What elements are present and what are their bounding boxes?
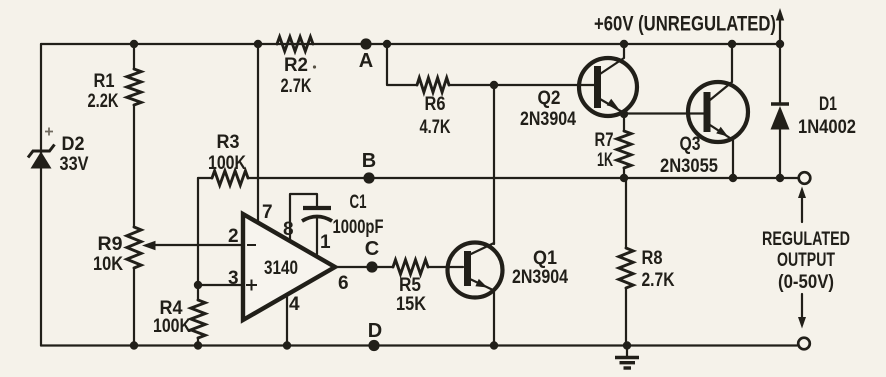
transistor Q2 2N3904: [579, 58, 637, 116]
wire junction down to Q1 collector: [493, 85, 495, 244]
svg-text:33V: 33V: [60, 154, 89, 175]
svg-text:R1: R1: [94, 71, 115, 92]
svg-text:3140: 3140: [264, 258, 298, 279]
wire left rail: [40, 44, 42, 346]
svg-text:R2: R2: [284, 55, 308, 76]
svg-text:Q2: Q2: [538, 88, 561, 109]
output terminal upper: [799, 172, 811, 184]
svg-text:100K: 100K: [153, 316, 191, 337]
node C: [366, 261, 377, 272]
svg-text:2.2K: 2.2K: [88, 91, 119, 112]
D2 plus mark: [45, 128, 53, 136]
ground symbol: [626, 346, 628, 357]
svg-text:8: 8: [283, 219, 294, 240]
svg-text:4.7K: 4.7K: [420, 117, 451, 138]
node A: [360, 38, 371, 49]
svg-text:1: 1: [320, 232, 331, 253]
wire node A drop to R6: [387, 44, 417, 85]
svg-text:1N4002: 1N4002: [798, 117, 856, 138]
wire pin 3: [198, 284, 243, 286]
resistor R5: [393, 260, 428, 274]
svg-text:100K: 100K: [208, 153, 246, 174]
wire node B rail to output terminal: [248, 177, 797, 179]
svg-text:1000pF: 1000pF: [333, 217, 384, 238]
wire pin 6 to R5: [335, 266, 393, 268]
capacitor C1: [303, 206, 331, 210]
wire pin 4 to bottom rail: [286, 294, 288, 346]
output arrow up: [801, 193, 803, 222]
wire C1 to pin 1: [316, 217, 318, 254]
zener diode D2 33V: [31, 152, 52, 169]
wire R3 left lead down: [197, 178, 199, 300]
wire pin 8 stub to C1: [290, 194, 317, 241]
wire Q2 emitter to Q3 base: [624, 112, 705, 114]
svg-text:2.7K: 2.7K: [281, 76, 312, 97]
svg-text:2N3904: 2N3904: [520, 109, 576, 130]
+60V supply arrow: [779, 17, 781, 44]
op-amp minus sign: [247, 244, 256, 246]
op-amp U1 3140 body: [243, 214, 335, 320]
svg-text:A: A: [359, 50, 373, 72]
R9 wiper arrow wire to pin 2: [151, 244, 243, 246]
svg-text:R3: R3: [217, 132, 240, 153]
wire bottom ground rail: [41, 344, 797, 346]
resistor R2: [277, 37, 313, 51]
resistor R1: [133, 44, 135, 69]
R2 print dot artifact: [313, 65, 316, 68]
wire op-amp pin 7 to top rail: [257, 44, 259, 223]
wire R4 to bottom rail: [197, 338, 199, 346]
svg-text:Q3: Q3: [680, 134, 701, 155]
resistor R8: [625, 178, 627, 248]
wire node B rail start: [198, 177, 212, 179]
svg-text:Q1: Q1: [533, 248, 557, 269]
resistor R4: [191, 300, 205, 338]
wire top rail: [41, 43, 780, 45]
svg-text:1K: 1K: [597, 150, 613, 171]
svg-text:2N3904: 2N3904: [512, 267, 568, 288]
svg-text:C: C: [365, 238, 379, 260]
junction dots: [130, 40, 138, 48]
transistor Q3 2N3055: [688, 82, 748, 142]
svg-text:+60V (UNREGULATED): +60V (UNREGULATED): [594, 13, 776, 36]
wire R9 to bottom rail: [133, 268, 135, 346]
svg-text:C1: C1: [350, 192, 367, 213]
svg-text:15K: 15K: [396, 294, 426, 315]
svg-text:B: B: [362, 150, 376, 172]
svg-text:OUTPUT: OUTPUT: [777, 250, 835, 271]
svg-text:3: 3: [228, 268, 239, 289]
svg-text:6: 6: [338, 273, 349, 294]
output terminal lower: [798, 338, 810, 350]
svg-text:R6: R6: [425, 94, 446, 115]
op-amp plus sign: [246, 280, 257, 291]
svg-text:R9: R9: [98, 234, 123, 255]
svg-text:7: 7: [262, 202, 273, 223]
svg-text:10K: 10K: [93, 254, 123, 275]
svg-text:D: D: [368, 320, 382, 342]
svg-text:R8: R8: [642, 248, 663, 269]
output arrow down: [801, 294, 803, 321]
svg-text:R7: R7: [595, 130, 614, 151]
node B: [363, 172, 374, 183]
wire R1 to R9: [133, 105, 135, 227]
svg-text:2: 2: [228, 226, 239, 247]
resistor R6: [417, 78, 449, 92]
svg-text:REGULATED: REGULATED: [762, 229, 850, 250]
resistor R7: [623, 114, 625, 132]
diode D1 1N4002: [779, 44, 781, 103]
svg-text:(0-50V): (0-50V): [778, 272, 834, 293]
resistor R9 potentiometer: [127, 227, 141, 268]
svg-text:D1: D1: [819, 94, 837, 115]
resistor R3: [212, 171, 248, 185]
svg-text:2N3055: 2N3055: [660, 156, 718, 177]
wire R5 to Q1 base: [428, 266, 463, 268]
transistor Q1 2N3904: [448, 243, 503, 298]
svg-text:R5: R5: [399, 275, 421, 296]
node D: [368, 340, 379, 351]
svg-text:2.7K: 2.7K: [642, 270, 675, 291]
svg-text:D2: D2: [62, 134, 85, 155]
svg-text:4: 4: [289, 294, 300, 315]
wire R6 to Q2 base: [449, 84, 596, 86]
